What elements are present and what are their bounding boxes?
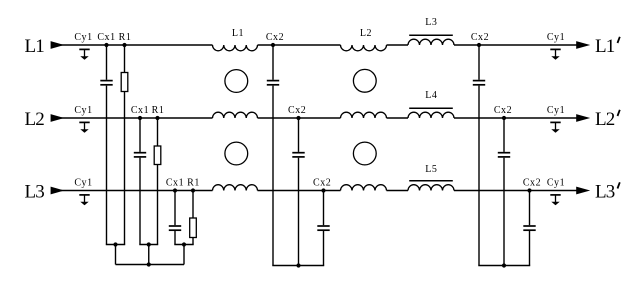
svg-text:Cx2: Cx2 (523, 177, 541, 188)
node mid bus junction (296, 263, 300, 267)
svg-text:L2: L2 (360, 28, 372, 39)
wire Cx1/R1 pair join and drop (L2) (139, 245, 158, 265)
inductor L2 phase-B winding (341, 112, 387, 118)
wire Cx1/R1 pair join and drop (L1) (106, 245, 125, 265)
wire left star bus (116, 264, 185, 266)
svg-text:L2: L2 (25, 109, 45, 130)
wire phase L3 main line (56, 190, 578, 192)
svg-text:R1: R1 (187, 177, 200, 188)
wire phase L2 main line (56, 117, 578, 119)
svg-text:Cy1: Cy1 (547, 177, 565, 188)
core circle choke L2 upper (353, 69, 376, 92)
inductor L1 phase-B winding (213, 112, 258, 118)
svg-text:L3: L3 (595, 182, 615, 203)
capacitor Cx2 output-section (L2) with branch wire (498, 118, 510, 266)
node pair join (L2) (147, 242, 151, 246)
node Cx1 junction on L2 (138, 116, 142, 120)
svg-text:Cx1: Cx1 (97, 32, 115, 43)
svg-text:Cx1: Cx1 (166, 177, 184, 188)
svg-text:L3: L3 (425, 17, 437, 28)
prime mark on L2&#8242; (618, 110, 620, 116)
capacitor Cx1 (L1 line) with branch wire (100, 45, 112, 245)
input arrow L2 (51, 114, 65, 122)
svg-text:L5: L5 (425, 164, 437, 175)
inductor L2 phase-C winding (341, 185, 387, 191)
svg-text:Cy1: Cy1 (74, 177, 92, 188)
svg-text:L3: L3 (25, 182, 45, 203)
wire mid bus (272, 265, 324, 267)
resistor R1 (L3 line) with branch wire (190, 191, 197, 245)
node pair join (L1) (113, 242, 117, 246)
node Cx2 mid junction on L2 (296, 116, 300, 120)
node Cx2 mid junction on L3 (321, 188, 325, 192)
inductor L3 with core bar (408, 39, 454, 45)
svg-text:L4: L4 (425, 90, 437, 101)
node Cx2 output junction on L3 (527, 188, 531, 192)
svg-text:Cx2: Cx2 (266, 32, 284, 43)
node R1 junction on L2 (155, 116, 159, 120)
capacitor Cx2 mid-section (L2) with branch wire (292, 118, 304, 266)
svg-text:Cx2: Cx2 (313, 177, 331, 188)
wire Cx1/R1 pair join and drop (L3) (174, 245, 193, 265)
capacitor Cy1 input side (L3 to chassis) (79, 195, 89, 205)
node pair join (L3) (182, 242, 186, 246)
prime mark on L1&#8242; (618, 37, 620, 43)
output arrow L2&#8242; (576, 114, 590, 122)
node Cx1 junction on L1 (104, 43, 108, 47)
svg-text:L1: L1 (232, 28, 244, 39)
svg-text:Cx2: Cx2 (494, 105, 512, 116)
node Cx1 junction on L3 (173, 188, 177, 192)
svg-text:Cy1: Cy1 (74, 32, 92, 43)
capacitor Cy1 output side (L3 to chassis) (550, 195, 560, 205)
inductor L1 phase-C winding (213, 185, 258, 191)
svg-text:Cy1: Cy1 (547, 105, 565, 116)
prime mark on L3&#8242; (618, 182, 620, 188)
inductor L1 phase-A winding (213, 45, 258, 51)
svg-text:Cy1: Cy1 (547, 32, 565, 43)
capacitor Cx2 mid-section (L3) with branch wire (317, 191, 329, 266)
svg-text:Cx1: Cx1 (131, 105, 149, 116)
wire phase L1 main line (56, 44, 578, 46)
svg-text:L2: L2 (595, 109, 615, 130)
capacitor Cy1 output side (L1 to chassis) (550, 49, 560, 59)
capacitor Cy1 input side (L1 to chassis) (79, 49, 89, 59)
inductor L2 phase-A winding (341, 45, 387, 51)
output arrow L3&#8242; (576, 187, 590, 195)
node left bus junction (147, 262, 151, 266)
output arrow L1&#8242; (576, 41, 590, 49)
wire right bus (478, 265, 530, 267)
node right bus junction (502, 263, 506, 267)
svg-text:Cx2: Cx2 (288, 105, 306, 116)
svg-text:Cy1: Cy1 (74, 105, 92, 116)
capacitor Cx2 output-section (L1) with branch wire (473, 45, 485, 266)
capacitor Cx2 output-section (L3) with branch wire (523, 191, 535, 266)
capacitor Cy1 output side (L2 to chassis) (550, 122, 560, 132)
core circle choke L1 upper (225, 70, 248, 93)
input arrow L3 (51, 187, 65, 195)
capacitor Cy1 input side (L2 to chassis) (79, 122, 89, 132)
svg-text:R1: R1 (152, 105, 165, 116)
capacitor Cx1 (L3 line) with branch wire (169, 191, 181, 245)
input arrow L1 (51, 41, 65, 49)
svg-text:R1: R1 (119, 32, 132, 43)
capacitor Cx1 (L2 line) with branch wire (134, 118, 146, 245)
resistor R1 (L1 line) with branch wire (121, 45, 128, 245)
node R1 junction on L3 (191, 188, 195, 192)
node Cx2 output junction on L1 (477, 43, 481, 47)
capacitor Cx2 mid-section (L1) with branch wire (267, 45, 279, 266)
node Cx2 output junction on L2 (502, 116, 506, 120)
inductor L5 with core bar (408, 185, 454, 191)
svg-text:L1: L1 (595, 36, 615, 57)
core circle choke L2 lower (353, 142, 376, 165)
node Cx2 mid junction on L1 (271, 43, 275, 47)
svg-text:Cx2: Cx2 (471, 32, 489, 43)
svg-text:L1: L1 (25, 36, 45, 57)
resistor R1 (L2 line) with branch wire (154, 118, 161, 245)
node R1 junction on L1 (122, 43, 126, 47)
inductor L4 with core bar (408, 112, 454, 118)
core circle choke L1 lower (225, 142, 248, 165)
